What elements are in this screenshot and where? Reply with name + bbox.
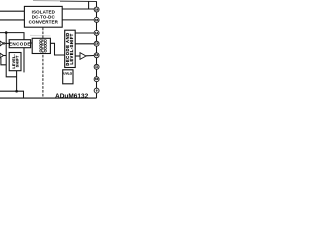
- pin 15: [94, 17, 99, 22]
- pin 16: [94, 7, 99, 12]
- wire ENCODE to transformer: [31, 42, 33, 44]
- pin 13: [94, 41, 99, 46]
- svg-text:12: 12: [95, 53, 99, 57]
- node bubble at T1 apex: [3, 43, 5, 45]
- wire bottom package border: [0, 97, 97, 99]
- svg-text:13: 13: [95, 42, 99, 46]
- svg-text:CONVERTER: CONVERTER: [29, 19, 59, 24]
- svg-text:16: 16: [95, 7, 99, 11]
- svg-text:ENCODE: ENCODE: [9, 41, 31, 46]
- box U5 uvlo: [63, 70, 73, 84]
- wire converter to pin 2: [62, 19, 94, 21]
- wire decode to driver T4: [75, 55, 80, 57]
- transistor buffer T2 comparator: [0, 53, 4, 58]
- wire GND1 bottom to border: [0, 91, 24, 98]
- box U4 decode and level shift: [65, 30, 76, 67]
- wire top rail drop to pin wire: [88, 1, 90, 9]
- pin 11: [94, 64, 99, 69]
- wire top border dark right part: [60, 0, 97, 2]
- wire vertical rail down from junction: [6, 33, 16, 77]
- box U3 level-shift: [9, 53, 21, 71]
- svg-text:LEVEL-SHIFT: LEVEL-SHIFT: [69, 33, 74, 64]
- node junction bottom wire: [15, 90, 18, 93]
- wire VDD1 rail into ENCODE top: [0, 33, 24, 40]
- wire decode to pin 4: [75, 43, 94, 45]
- svg-text:15: 15: [95, 18, 99, 22]
- svg-text:UVLO: UVLO: [63, 72, 72, 76]
- wire top border faint left part: [33, 0, 60, 2]
- pin 12: [94, 53, 99, 58]
- coil right winding: [44, 40, 46, 53]
- wire from level-shift box bottom down to bottom rail: [16, 71, 18, 92]
- wire decode to pin 3: [75, 32, 94, 34]
- wire faint label band above transformer: [30, 34, 50, 37]
- wire T2 output to rail: [4, 55, 7, 57]
- pin 14: [94, 30, 99, 35]
- wire GND1 input to converter: [0, 19, 24, 21]
- wire VDD1 input to converter: [0, 10, 24, 12]
- box U2 encode: [9, 40, 30, 48]
- wire T4 output to pin 5: [86, 55, 94, 57]
- wire T1 output to ENCODE: [5, 42, 10, 44]
- coil left winding: [40, 40, 42, 53]
- svg-text:SHIFT: SHIFT: [16, 55, 20, 67]
- node junction on VDD1 rail: [5, 31, 8, 34]
- pin 10: [94, 77, 99, 82]
- wire isolation barrier dashed: [42, 28, 44, 98]
- transformer T1 isolation: [32, 38, 50, 53]
- wire transformer to decode Z-route: [50, 43, 64, 55]
- svg-text:14: 14: [95, 31, 99, 35]
- wire converter to pin VDDA: [62, 8, 94, 10]
- wire T2 feedback L: [1, 58, 6, 65]
- transistor buffer T1 input inverter: [0, 41, 3, 46]
- svg-text:11: 11: [95, 65, 98, 69]
- transistor output driver T4: [80, 53, 86, 60]
- box U1 isolated dc-to-dc converter: [24, 6, 62, 27]
- pin 9: [94, 88, 99, 93]
- wire right package border: [96, 1, 98, 98]
- wire ENCODE bottom stub down: [23, 48, 25, 73]
- svg-text:10: 10: [95, 77, 99, 81]
- svg-text:ADuM6132: ADuM6132: [55, 93, 89, 100]
